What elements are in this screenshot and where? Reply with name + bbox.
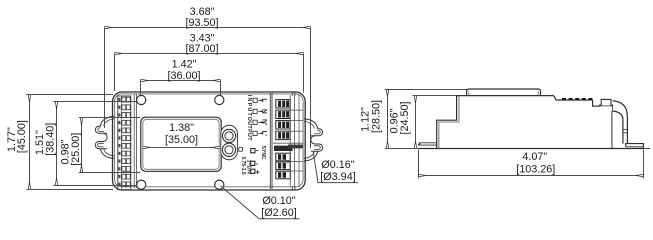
svg-text:1.38": 1.38": [169, 122, 194, 134]
svg-text:L: L: [261, 98, 268, 102]
svg-text:OUTPUT: OUTPUT: [246, 117, 252, 142]
mounting screw hole bottom-right: [215, 180, 224, 189]
dim 0.96in body height side: [385, 96, 457, 149]
partition line between label area and terminals: [270, 93, 272, 189]
side ground line: [419, 148, 644, 150]
svg-text:[38.40]: [38.40]: [45, 123, 57, 156]
svg-text:[28.50]: [28.50]: [371, 100, 383, 133]
svg-text:4.07": 4.07": [522, 151, 547, 163]
side dashed vent line: [562, 98, 592, 100]
svg-text:[Ø3.94]: [Ø3.94]: [320, 171, 355, 183]
dim 1.51in hole spacing vertical: [53, 102, 136, 186]
svg-text:Ø0.10": Ø0.10": [262, 195, 295, 207]
svg-text:L’: L’: [261, 131, 268, 137]
svg-text:N: N: [261, 109, 268, 114]
side left step: [437, 96, 459, 149]
left snap ear: [95, 116, 114, 158]
terminal row N': [253, 119, 268, 126]
side snap hook: [613, 101, 628, 144]
side main top: [457, 95, 554, 97]
dim 3.68in overall width: [105, 28, 311, 149]
DIP switch rows: [118, 97, 130, 187]
body outline (front view housing): [113, 92, 306, 190]
dim 0.98in plate height: [79, 118, 141, 173]
svg-text:[36.00]: [36.00]: [167, 70, 200, 82]
dim 1.38in plate width: [143, 147, 220, 149]
sensor hole upper: [222, 129, 235, 142]
side chamfer and ledge: [554, 96, 600, 107]
inner rib lines: [134, 94, 136, 188]
dim wiring label 1~10V: [246, 160, 252, 175]
side dome lid: [467, 89, 541, 96]
svg-text:0.75-1.5: 0.75-1.5: [240, 156, 246, 175]
dim 3.43in body width: [115, 54, 304, 93]
svg-text:N’: N’: [261, 119, 268, 126]
svg-text:[24.50]: [24.50]: [399, 101, 411, 134]
svg-text:[Ø2.60]: [Ø2.60]: [261, 207, 296, 219]
dim plus terminal row: [251, 169, 260, 176]
svg-text:[35.00]: [35.00]: [165, 134, 198, 146]
terminal label group INPUT: [246, 95, 252, 117]
side clamp block: [600, 99, 613, 111]
body inner edge line: [115, 94, 304, 187]
capsule around sensor holes: [221, 125, 238, 160]
label hole dia 0.10in with leader: [221, 186, 300, 219]
terminal row L': [253, 131, 268, 137]
raised plate inner edge: [143, 119, 219, 169]
svg-text:[25.00]: [25.00]: [70, 133, 82, 166]
svg-text:INPUT: INPUT: [246, 95, 252, 117]
wire clamp dark bar: [273, 142, 303, 144]
terminal label group OUTPUT: [246, 117, 252, 142]
svg-text:1.42": 1.42": [172, 59, 197, 71]
svg-text:[103.26]: [103.26]: [516, 164, 555, 176]
terminal block housing lines: [290, 95, 303, 187]
mounting screw hole bottom-left: [137, 180, 146, 189]
terminal block upper rows: [276, 100, 290, 108]
side base right tab: [626, 144, 644, 149]
terminal block lower rows: [276, 153, 290, 161]
svg-text:Ø0.16": Ø0.16": [321, 159, 354, 171]
dim 1.77in overall height: [26, 95, 113, 190]
dim 4.07in base width: [419, 149, 651, 179]
sync terminal row: [251, 146, 267, 160]
terminal row L: square, arrow, letter: [253, 98, 268, 102]
svg-text:[87.00]: [87.00]: [185, 43, 218, 55]
dim minus terminal row: [251, 161, 259, 168]
svg-text:+: +: [256, 170, 260, 177]
wire-range marking 0.75-1.5: [239, 148, 246, 175]
svg-text:-: -: [256, 161, 259, 168]
dim 1.12in overall height side: [385, 90, 467, 149]
right snap ear: [304, 119, 323, 161]
svg-text:[45.00]: [45.00]: [16, 120, 28, 153]
terminal row N: [253, 109, 268, 114]
raised plate: [141, 117, 221, 171]
side body right edge: [611, 111, 613, 149]
sensor hole lower: [222, 143, 235, 156]
side left ear tab: [419, 143, 437, 146]
DIP switch strip: [118, 96, 131, 190]
label ear hole dia 0.16in with leader: [313, 152, 358, 183]
tick marks on housing edge: [292, 92, 295, 190]
svg-text:SYNC: SYNC: [260, 146, 266, 160]
mounting screw hole top-right: [215, 95, 224, 104]
svg-text:[93.50]: [93.50]: [185, 17, 218, 29]
dim 1.42in hole spacing: [141, 81, 221, 96]
mounting screw hole top-left: [137, 95, 146, 104]
